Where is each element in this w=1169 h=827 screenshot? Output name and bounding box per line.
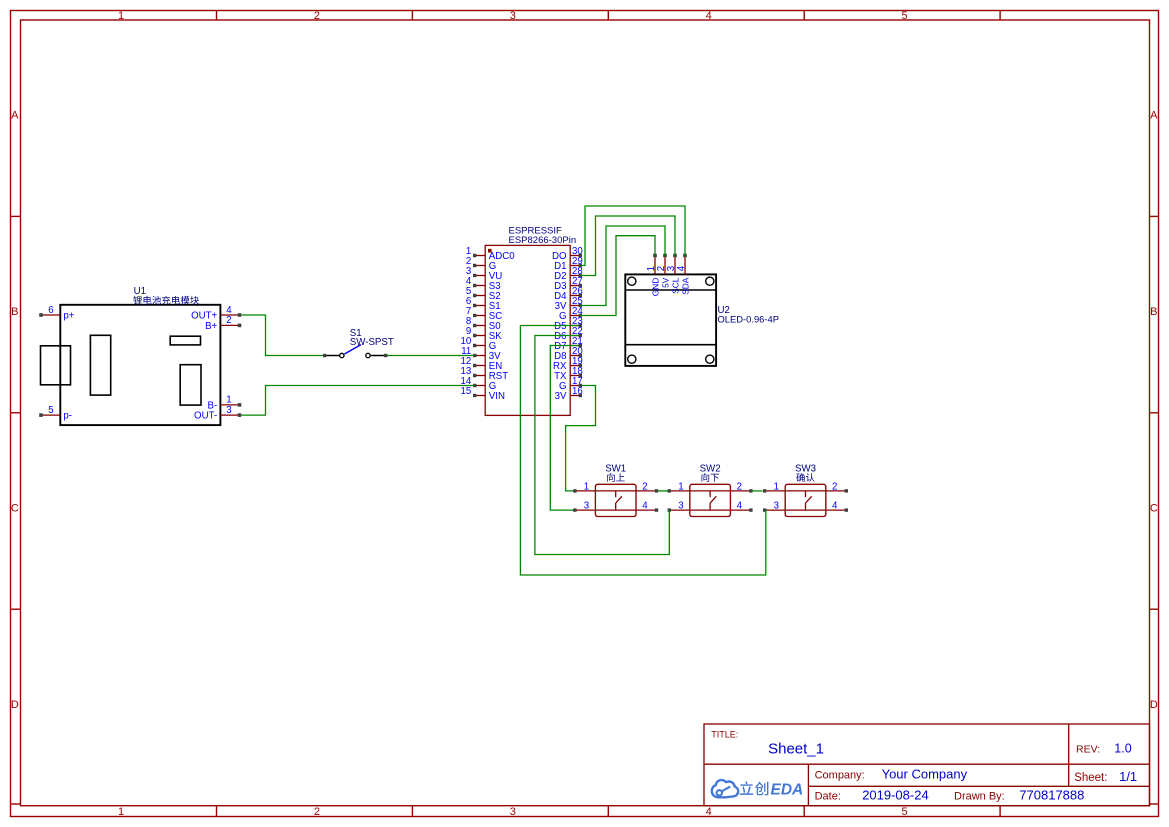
svg-text:EDA: EDA	[771, 782, 804, 799]
svg-text:770817888: 770817888	[1019, 787, 1084, 802]
svg-text:SW-SPST: SW-SPST	[350, 337, 394, 348]
svg-text:4: 4	[642, 501, 648, 512]
svg-text:3: 3	[226, 405, 231, 416]
svg-text:5: 5	[902, 806, 908, 818]
U1 internal rect (component)	[170, 336, 200, 345]
svg-text:2: 2	[226, 315, 231, 326]
ESP8266 pin 4 (S3)	[466, 276, 501, 292]
SW2 pin line 3-4	[671, 509, 750, 511]
switch S1 SW-SPST	[323, 345, 387, 358]
EasyEDA 立创EDA logo cloud icon	[712, 780, 738, 797]
svg-text:5V: 5V	[660, 277, 670, 288]
SW1 pin line 1-2	[576, 490, 655, 492]
svg-text:TITLE:: TITLE:	[711, 729, 738, 739]
tactile switch SW1 向上	[573, 482, 658, 517]
ESP8266 pin 20 (D8)	[554, 346, 583, 362]
ESP8266 pin 1 (ADC0)	[466, 246, 515, 262]
ESP8266 pin 27 (D3)	[554, 276, 583, 292]
svg-text:1: 1	[774, 482, 779, 493]
logo link line	[722, 787, 730, 792]
svg-text:OLED-0.96-4P: OLED-0.96-4P	[718, 313, 780, 324]
svg-text:3: 3	[774, 501, 779, 512]
wire: ESP8266 G pin24 to U2 GND pin1	[580, 236, 655, 316]
wire: ESP8266 D6 pin22 to SW2 pin3	[535, 336, 669, 555]
ESP8266 pin 23 (D5)	[554, 316, 583, 332]
svg-text:OUT+: OUT+	[191, 311, 217, 322]
svg-text:4: 4	[737, 501, 743, 512]
svg-text:1: 1	[678, 482, 683, 493]
svg-text:Date:: Date:	[815, 790, 841, 802]
svg-text:Your Company: Your Company	[882, 767, 968, 782]
U2 pin 3 (SCL)	[666, 254, 681, 294]
ESP8266 pin 17 (G)	[559, 376, 583, 392]
U1 internal rect (component 2)	[180, 365, 201, 405]
U1 battery charging module 锂电池充电模块	[41, 305, 221, 425]
SW3 contact symbol	[805, 491, 807, 497]
ESP8266 pin 13 (RST)	[461, 366, 509, 382]
wire: ESP8266 D7 pin21 to SW1 pin3	[550, 346, 578, 511]
svg-text:4: 4	[226, 305, 232, 316]
svg-text:VIN: VIN	[489, 391, 505, 402]
wire: SW2 pin2 to SW3 pin1	[752, 490, 762, 492]
SW3 pin line 3-4	[766, 509, 845, 511]
ESP8266 pin 16 (3V)	[555, 386, 583, 402]
ESP8266 pin 5 (S2)	[466, 286, 501, 302]
U2 pin 4 (SDA)	[676, 254, 691, 295]
wire: U1 OUT- to ESP8266 G pin14	[242, 386, 475, 416]
U2 mounting hole top-right	[706, 277, 714, 285]
ESP8266 pin 26 (D4)	[554, 286, 583, 302]
svg-text:4: 4	[676, 265, 687, 271]
ESP8266 pin 10 (G)	[461, 336, 497, 352]
SW2 function label 向下	[702, 473, 710, 482]
ESP8266 pin 24 (G)	[559, 306, 583, 322]
SW1 function label 向上	[607, 473, 615, 482]
svg-text:6: 6	[48, 305, 53, 316]
svg-text:5: 5	[48, 405, 53, 416]
svg-text:5: 5	[902, 10, 908, 22]
ESP8266 pin 7 (SC)	[466, 306, 502, 322]
U1 pin 6 (p+)	[39, 305, 75, 322]
SW2 pin line 1-2	[671, 490, 750, 492]
ESP8266 pin 14 (G)	[461, 376, 497, 392]
ESP8266-30Pin module U3	[485, 245, 570, 415]
svg-text:2019-08-24: 2019-08-24	[862, 787, 929, 802]
svg-text:2: 2	[642, 482, 647, 493]
svg-text:SW2: SW2	[700, 464, 721, 475]
ESP8266 pin 8 (S0)	[466, 316, 501, 332]
svg-text:SW3: SW3	[795, 464, 816, 475]
ESP8266 pin 18 (TX)	[554, 366, 583, 382]
U1 internal rect (IC)	[90, 335, 110, 395]
svg-text:A: A	[1150, 110, 1158, 122]
svg-text:p+: p+	[63, 311, 74, 322]
svg-text:OUT-: OUT-	[194, 411, 217, 422]
svg-text:4: 4	[706, 806, 712, 818]
U2 pin 2 (5V)	[656, 254, 671, 288]
logo wheel circle	[717, 790, 722, 795]
svg-text:Drawn By:: Drawn By:	[954, 790, 1005, 802]
svg-text:U1: U1	[134, 286, 146, 297]
svg-text:Company:: Company:	[815, 770, 865, 782]
svg-text:B+: B+	[205, 321, 217, 332]
svg-text:B: B	[11, 306, 18, 318]
svg-text:Sheet:: Sheet:	[1074, 772, 1107, 784]
svg-text:3: 3	[510, 806, 516, 818]
svg-text:1.0: 1.0	[1114, 741, 1131, 755]
ESP8266 pin 6 (S1)	[466, 296, 501, 312]
U2 mounting hole bottom-left	[628, 355, 636, 363]
ESP8266 pin 19 (RX)	[553, 356, 583, 372]
ESP8266 pin 22 (D6)	[554, 326, 583, 342]
tactile switch SW2 向下	[668, 482, 753, 517]
wire: ESP8266 D5 pin23 to SW3 pin3	[520, 326, 765, 576]
svg-text:C: C	[11, 503, 19, 515]
svg-text:1: 1	[118, 10, 124, 22]
U1 pin 4 (OUT+)	[191, 305, 241, 322]
SW1 contact symbol	[615, 491, 617, 497]
U2 mounting hole bottom-right	[706, 355, 714, 363]
tactile switch SW3 确认	[763, 482, 848, 517]
U1 internal rect (USB connector)	[41, 346, 71, 385]
svg-text:C: C	[1150, 503, 1158, 515]
ESP8266 pin 9 (SK)	[466, 326, 502, 342]
svg-text:2: 2	[737, 482, 742, 493]
svg-text:REV:: REV:	[1076, 743, 1100, 755]
SW3 pin line 1-2	[766, 490, 845, 492]
svg-text:4: 4	[832, 501, 838, 512]
SW2 contact symbol	[709, 491, 711, 497]
U2 mounting hole top-left	[628, 277, 636, 285]
svg-text:ESP8266-30Pin: ESP8266-30Pin	[509, 235, 577, 246]
U1 pin 2 (B+)	[205, 315, 241, 332]
svg-text:p-: p-	[63, 411, 72, 422]
svg-text:2: 2	[314, 806, 320, 818]
wire: SW1 pin2 to SW2 pin1	[658, 490, 668, 492]
ESP8266 pin 15 (VIN)	[461, 386, 505, 402]
wire: U1 OUT+ to S1 pin1	[242, 315, 324, 356]
ESP8266 pin 12 (EN)	[461, 356, 503, 372]
wire: ESP8266 D2 pin28 to U2 SCL pin3	[580, 216, 675, 276]
svg-text:3: 3	[678, 501, 683, 512]
svg-text:B: B	[1150, 306, 1157, 318]
U2 OLED-0.96-4P display	[625, 274, 716, 366]
U2 pin 1 (GND)	[646, 254, 661, 297]
svg-text:SCL: SCL	[670, 277, 680, 294]
svg-text:GND: GND	[650, 278, 660, 297]
svg-text:2: 2	[314, 10, 320, 22]
svg-text:16: 16	[572, 386, 583, 397]
svg-text:3: 3	[510, 10, 516, 22]
ESP8266 pin 30 (DO)	[552, 246, 583, 262]
svg-text:D: D	[1150, 699, 1158, 711]
svg-text:3: 3	[584, 501, 589, 512]
svg-text:SW1: SW1	[605, 464, 626, 475]
ESP8266 pin 3 (VU)	[466, 266, 502, 282]
wire: ESP8266 D1 pin29 to U2 SDA pin4	[580, 206, 685, 266]
ESP8266 pin 21 (D7)	[554, 336, 583, 352]
svg-text:2: 2	[832, 482, 837, 493]
svg-text:1/1: 1/1	[1119, 769, 1137, 784]
ESP8266 pin 11 (3V)	[461, 346, 501, 362]
ESP8266 pin 29 (D1)	[554, 256, 583, 272]
title block	[704, 724, 1150, 806]
ESP8266 pin 2 (G)	[466, 256, 496, 272]
svg-text:A: A	[11, 110, 19, 122]
wire: ESP8266 3V pin25 to U2 5V pin2	[580, 226, 665, 306]
svg-text:SDA: SDA	[680, 277, 690, 295]
U1 pin 1 (B-)	[208, 395, 242, 412]
SW3 function label 确认	[796, 473, 804, 482]
SW1 pin line 3-4	[576, 509, 655, 511]
U1 pin 3 (OUT-)	[194, 405, 241, 422]
wire: ESP8266 G pin17 to SW1 pin1	[566, 386, 596, 491]
svg-text:15: 15	[461, 386, 472, 397]
ESP8266 pin-1 marker	[488, 249, 492, 253]
svg-text:1: 1	[584, 482, 589, 493]
logo text 立创	[740, 781, 754, 794]
U1 name label 锂电池充电模块	[133, 296, 142, 305]
S1 lever	[344, 345, 361, 354]
svg-text:D: D	[11, 699, 19, 711]
svg-text:4: 4	[706, 10, 712, 22]
ESP8266 pin 25 (3V)	[555, 296, 583, 312]
U1 pin 5 (p-)	[39, 405, 72, 422]
ESP8266 pin 28 (D2)	[554, 266, 583, 282]
svg-text:Sheet_1: Sheet_1	[768, 740, 824, 757]
svg-text:3V: 3V	[555, 391, 567, 402]
svg-text:1: 1	[118, 806, 124, 818]
wire: S1 pin2 to ESP8266 3V pin11	[387, 355, 474, 357]
